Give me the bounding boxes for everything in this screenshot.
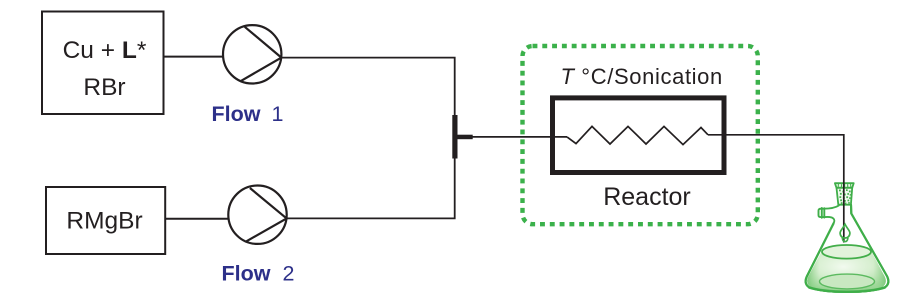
- pump P2: [228, 186, 286, 244]
- liquid: [807, 252, 886, 291]
- mixer tee stub: [458, 135, 473, 140]
- reactor coil (zigzag): [567, 126, 708, 144]
- svg-text:Flow: Flow: [212, 102, 261, 126]
- reagent box: RMgBr: [46, 187, 165, 254]
- side arm: [819, 206, 839, 224]
- liquid surface: [822, 245, 871, 259]
- svg-text:1: 1: [272, 102, 284, 126]
- wire pump1 to tee riser: [281, 58, 454, 115]
- reagent box: Cu + L* / RBr: [42, 12, 164, 115]
- svg-text:T °C/Sonication: T °C/Sonication: [561, 64, 723, 89]
- wire box2 to pump2: [165, 218, 229, 220]
- mixer tee bar: [452, 115, 457, 159]
- pump P1: [223, 25, 281, 83]
- flask body re-stroke: [806, 205, 889, 292]
- liquid bottom ellipse: [820, 274, 875, 289]
- drop bead: [842, 238, 848, 241]
- svg-text:RMgBr: RMgBr: [66, 208, 142, 235]
- svg-text:2: 2: [283, 261, 295, 285]
- drop at tube outlet: [840, 224, 850, 238]
- sonication zone (green dashed rounded box): [523, 46, 758, 224]
- flask E1 (erlenmeyer, green): [806, 183, 889, 292]
- ground glass joint: [835, 183, 854, 205]
- wire mixer to reactor inlet: [473, 136, 568, 138]
- wire pump2 to tee riser: [287, 159, 455, 219]
- wire reactor outlet to flask: [708, 135, 844, 243]
- svg-text:Cu + L*: Cu + L*: [63, 37, 147, 64]
- reactor box U1: [553, 98, 725, 173]
- svg-text:RBr: RBr: [83, 74, 125, 101]
- svg-text:Reactor: Reactor: [603, 183, 691, 211]
- flask body: [806, 205, 889, 292]
- wire box1 to pump1: [164, 56, 225, 58]
- svg-text:Flow: Flow: [222, 261, 271, 285]
- flask bottom band: [809, 287, 885, 291]
